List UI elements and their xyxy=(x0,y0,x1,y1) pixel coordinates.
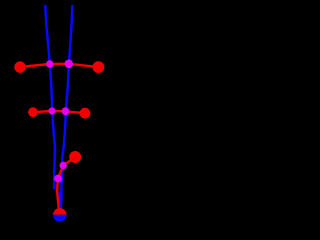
wire M-N xyxy=(58,166,63,179)
wire hip left E-F xyxy=(33,111,52,112)
node D red dot xyxy=(93,61,105,73)
wire shoulder left A-B xyxy=(20,64,50,67)
node N magenta dot xyxy=(54,175,62,183)
blue line right xyxy=(61,5,73,212)
node G magenta dot xyxy=(62,107,70,115)
node E red dot xyxy=(28,107,38,117)
node B magenta dot xyxy=(46,60,54,68)
wire hip mid F-G xyxy=(52,110,66,113)
wire knee K-M xyxy=(63,157,75,166)
wire hip right G-H xyxy=(66,111,86,113)
node C magenta dot xyxy=(65,60,74,69)
node M magenta dot xyxy=(60,162,67,169)
wire shoulder mid B-C xyxy=(50,63,69,66)
foot red half dot xyxy=(53,208,67,222)
foot blue half dot xyxy=(53,208,67,222)
node F magenta dot xyxy=(48,107,55,114)
node K red dot xyxy=(69,151,81,163)
wire shoulder right C-D xyxy=(69,64,99,67)
blue line left xyxy=(45,5,55,189)
node A red dot xyxy=(14,61,25,72)
wire shin N-foot xyxy=(57,179,59,210)
blue line left lower merge segment xyxy=(58,192,61,211)
node H red dot xyxy=(80,108,91,119)
